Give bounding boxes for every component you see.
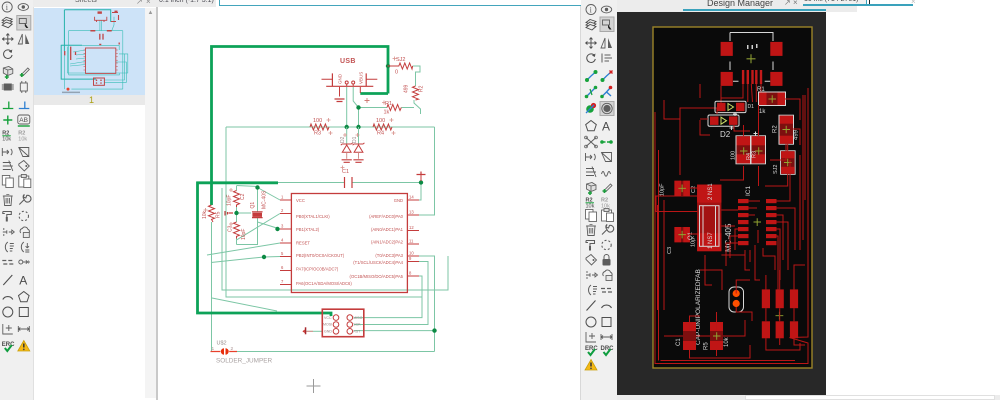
icon mirror (601, 38, 612, 48)
svg-text:1: 1 (281, 195, 284, 200)
icon route (585, 70, 598, 82)
svg-text:(AREF/ADC0)PA0: (AREF/ADC0)PA0 (369, 214, 404, 219)
icon text (602, 120, 610, 134)
svg-text:1 NS7: 1 NS7 (708, 232, 714, 249)
resistor SJ2 (388, 57, 413, 76)
label strip (34, 95, 145, 105)
icon label (18, 115, 30, 126)
ground stub symbol left of ISP (302, 327, 313, 334)
components R3 R4 (730, 112, 796, 174)
icon ratsnest (5, 242, 13, 252)
usb pads (721, 42, 733, 56)
svg-text:0: 0 (395, 70, 398, 76)
icon measure (601, 334, 612, 340)
icon pin-dot (586, 271, 598, 279)
icon pin (2, 148, 12, 156)
svg-text:USB: USB (340, 58, 356, 65)
svg-text:PA6(OC1A/SDA/MOSI/ADC6): PA6(OC1A/SDA/MOSI/ADC6) (296, 281, 352, 286)
svg-text:C3: C3 (667, 247, 673, 254)
icon split (2, 261, 13, 265)
node pin5 (262, 255, 266, 259)
capacitor C3 (vertical) (228, 222, 248, 240)
svg-text:10: 10 (409, 251, 414, 256)
wire R1 left (359, 107, 388, 109)
wire crystal group (236, 186, 238, 245)
icon wrench (19, 194, 31, 204)
board outline (653, 27, 812, 368)
svg-text:VBUS: VBUS (359, 72, 364, 84)
usb origin cross (365, 98, 370, 103)
node RST right (432, 328, 436, 332)
svg-text:100: 100 (376, 118, 385, 124)
icon move (2, 34, 13, 45)
icon dimension (3, 324, 13, 334)
svg-text:PA7(ICP/OC0B/ADC7): PA7(ICP/OC0B/ADC7) (296, 267, 339, 272)
icon meander (602, 172, 611, 177)
wire GND pin14 (419, 183, 421, 201)
icon eye (601, 6, 611, 13)
svg-text:10pF: 10pF (241, 229, 247, 240)
icon move (586, 38, 597, 49)
svg-text:5: 5 (281, 251, 284, 256)
icon rect (19, 308, 28, 317)
svg-text:IC1: IC1 (745, 186, 752, 197)
traces bottom (661, 230, 806, 361)
svg-text:13: 13 (409, 210, 414, 215)
icon cloud (20, 227, 29, 238)
icon circle (3, 307, 13, 317)
resistor R1 (384, 101, 402, 116)
svg-text:VCC: VCC (324, 316, 332, 320)
icon drc (601, 346, 615, 355)
icon line (3, 275, 12, 285)
svg-text:SJ2: SJ2 (773, 165, 779, 174)
capacitor C1 (342, 169, 352, 188)
svg-text:(AIN0/ADC1)PA1: (AIN0/ADC1)PA1 (371, 227, 404, 232)
svg-text:GND: GND (394, 198, 403, 203)
component R2 (773, 115, 800, 144)
svg-text:(AIN1/ADC2)PA2: (AIN1/ADC2)PA2 (371, 240, 404, 245)
icon name/value (2, 131, 11, 143)
svg-text:Q1: Q1 (688, 231, 694, 240)
component D1 package (715, 101, 754, 112)
svg-text:R2: R2 (419, 85, 425, 92)
wire bottom jumper net (237, 351, 435, 353)
icon pin-dot (3, 228, 15, 236)
svg-text:(OC1B/MISO/DO/ADC5)PA5: (OC1B/MISO/DO/ADC5)PA5 (350, 274, 404, 279)
wire pin8 to ISP MISO (354, 276, 422, 318)
icon info (586, 5, 596, 15)
usb origin cross (747, 54, 756, 63)
svg-text:8: 8 (409, 271, 412, 276)
agnd tick near resonator (225, 211, 233, 216)
wire pin10 down right (419, 256, 435, 352)
icon layers (586, 20, 596, 31)
svg-text:R5: R5 (216, 211, 222, 218)
crystal Q1 (250, 190, 268, 218)
svg-text:U$2: U$2 (217, 341, 227, 347)
svg-text:14: 14 (409, 195, 414, 200)
wire USB D- down jog (353, 87, 358, 127)
svg-text:SJ2: SJ2 (396, 57, 405, 63)
wire left big loop vertical (226, 127, 422, 297)
svg-text:MC-405: MC-405 (724, 223, 733, 252)
component R5 fp (704, 322, 731, 350)
schematic command box (219, 0, 581, 6)
svg-text:12: 12 (409, 225, 414, 230)
component C2 fp (660, 181, 698, 196)
svg-text:100: 100 (731, 151, 737, 160)
svg-text:CAP-UNIPOLARIZEDFAB: CAP-UNIPOLARIZEDFAB (695, 269, 702, 345)
wire R1 right + R2 bottom jog (401, 100, 420, 114)
svg-text:D2: D2 (720, 130, 731, 139)
icon rect (602, 318, 611, 327)
icon pin (586, 153, 596, 161)
resistor R2 (vertical) (404, 84, 425, 100)
sheets panel header (33, 0, 216, 7)
icon unroute (601, 71, 613, 83)
svg-text:2: 2 (281, 208, 284, 213)
svg-text:C1: C1 (342, 169, 349, 175)
scrollbar (145, 8, 156, 398)
icon miter (585, 136, 598, 148)
icon route diff (585, 86, 598, 99)
svg-text:9: 9 (409, 256, 412, 261)
svg-text:D1: D1 (352, 136, 358, 143)
svg-text:1: 1 (212, 346, 215, 352)
svg-text:C3: C3 (228, 225, 234, 232)
icon unroute2 (600, 86, 612, 99)
solder jumper pads (729, 287, 744, 312)
node VCC C1 (419, 180, 423, 184)
icon paint (3, 212, 12, 222)
icon lock (603, 255, 611, 266)
solder jumper U$2 (211, 341, 273, 365)
node D2 top (345, 125, 349, 129)
wire VCC rail to C1 (278, 182, 421, 184)
board canvas (617, 12, 826, 395)
wire diagonals to MCU pins (258, 188, 281, 201)
component C1 fp (676, 322, 696, 350)
node crystal top (255, 185, 259, 189)
svg-text:D2: D2 (340, 136, 346, 143)
icon add part (587, 183, 597, 196)
traces center (658, 160, 796, 310)
icon delete (3, 195, 13, 206)
usb small pads row (742, 70, 762, 84)
icon value (601, 198, 610, 210)
icon align (602, 54, 612, 63)
icon erc (2, 342, 15, 351)
icon layers (2, 17, 12, 28)
svg-text:10k: 10k (202, 210, 208, 219)
svg-text:2 NS1: 2 NS1 (708, 183, 714, 200)
icon delete (586, 225, 596, 236)
wire ISP RST (354, 330, 435, 332)
usb footprint silk (730, 33, 773, 82)
wire inner vertical (222, 188, 448, 290)
svg-text:PB0(XTAL1/CLKI): PB0(XTAL1/CLKI) (296, 214, 330, 219)
svg-text:C2: C2 (691, 186, 697, 193)
icon via (active) (600, 102, 614, 116)
svg-text:R3: R3 (752, 151, 758, 158)
svg-text:GND: GND (338, 73, 343, 84)
svg-text:PB2(INT0/OC0A/CKOUT): PB2(INT0/OC0A/CKOUT) (296, 253, 345, 258)
icon group-select (active) (17, 16, 31, 31)
usb connector USB (322, 58, 378, 97)
mcu IC1 ATtiny44 (280, 194, 419, 293)
icon paste (19, 175, 31, 188)
svg-text:1k: 1k (384, 110, 390, 116)
icon segment (600, 140, 613, 144)
component IC1 (738, 186, 777, 246)
svg-text:R1: R1 (757, 87, 765, 93)
region outline box (656, 196, 704, 212)
wire D net to pin13 (419, 127, 435, 215)
pin numbers (281, 195, 414, 285)
icon arc (3, 297, 13, 300)
icon pinswap (20, 81, 27, 93)
board coord text (800, 0, 866, 5)
icon copy (586, 210, 597, 222)
pin stubs right (407, 200, 419, 276)
sheet 1 thumbnail (selected, blue) (34, 8, 145, 95)
icon line (587, 301, 596, 311)
icon attribute (3, 161, 13, 172)
icon warn (585, 360, 597, 371)
wire R5 column (211, 222, 213, 352)
svg-text:R3: R3 (314, 131, 321, 137)
resistor R3 (310, 118, 329, 137)
icon polygon2 (602, 153, 612, 162)
design manager header (617, 0, 857, 12)
icon junction (3, 116, 12, 125)
wire net D-/D+ horizontal (226, 126, 435, 128)
icon paste (602, 209, 614, 222)
pin names (296, 198, 352, 286)
right toolbar (580, 0, 618, 400)
mcu side pin ticks (84, 50, 118, 70)
polygon pour outline (655, 88, 808, 364)
icon split (601, 289, 612, 293)
icon optimize (602, 240, 611, 249)
svg-text:MC-40S: MC-40S (262, 190, 268, 209)
diode D1 (zener) (352, 127, 364, 162)
icon eye (18, 4, 28, 11)
origin cross (307, 379, 321, 393)
icon copy (2, 176, 13, 188)
svg-text:R4: R4 (377, 131, 384, 137)
diode D2 (zener) (340, 127, 352, 162)
icon add recent (20, 68, 30, 77)
ISP header JP1 (322, 309, 364, 337)
svg-text:SOLDER_JUMPER: SOLDER_JUMPER (216, 358, 272, 365)
icon ripup (586, 103, 596, 113)
node pin3 (275, 227, 279, 231)
svg-text:R2: R2 (773, 125, 779, 133)
power +5V (417, 172, 426, 175)
wire ISP GND stub (306, 330, 322, 332)
svg-text:D1: D1 (748, 104, 755, 110)
svg-text:(T1/SCL/USCK/ADC4)PA4: (T1/SCL/USCK/ADC4)PA4 (353, 260, 403, 265)
icon net (3, 102, 14, 109)
ISP pads (762, 289, 798, 338)
component C3 fp (667, 227, 697, 254)
svg-text:VCC: VCC (296, 198, 305, 203)
svg-text:C2: C2 (240, 193, 246, 200)
icon reposition (21, 242, 29, 252)
icon add pencil (603, 184, 613, 193)
resistor R5 (vertical) (202, 205, 222, 222)
icon circle (586, 317, 596, 327)
divider (156, 0, 158, 400)
icon tag (586, 255, 597, 266)
top chrome (0, 0, 1000, 12)
svg-text:GND: GND (324, 330, 332, 334)
vcc symbol right (417, 172, 426, 182)
svg-text:R5: R5 (704, 342, 710, 350)
resistor R4 (373, 118, 392, 137)
icon cloud (603, 270, 612, 281)
schematic coord text (158, 0, 216, 7)
icon errors warn (18, 341, 30, 352)
icon paint (586, 241, 595, 251)
component R1 (757, 87, 786, 115)
schematic canvas (158, 0, 579, 400)
icon value dim (18, 131, 27, 143)
node D1 top (356, 125, 360, 129)
icon select (active) (600, 17, 614, 32)
svg-text:4: 4 (281, 238, 284, 243)
icon info (2, 2, 12, 12)
icon name (586, 198, 595, 210)
svg-text:6: 6 (281, 265, 284, 270)
svg-text:MISO: MISO (353, 316, 362, 320)
icon dimension (586, 332, 596, 342)
icon add part (3, 67, 13, 80)
wire SJ2 right to R2 top (413, 66, 420, 86)
icon ratsnest (589, 285, 597, 295)
icon rotate (4, 50, 13, 59)
svg-text:PB1(XTAL2): PB1(XTAL2) (296, 227, 320, 232)
svg-text:1k: 1k (759, 109, 766, 115)
icon wrench (602, 224, 614, 234)
icon erc (585, 346, 598, 355)
svg-text:(T0/ADC3)PA3: (T0/ADC3)PA3 (375, 253, 403, 258)
mid traces (664, 95, 803, 250)
icon polygon2 (19, 292, 30, 302)
pin stubs left (280, 200, 291, 285)
wire pin9 to ISP SCK (354, 262, 428, 325)
svg-text:10k: 10k (724, 336, 730, 347)
wire thick left loop (198, 182, 332, 317)
node SJ2 junction (386, 64, 390, 68)
svg-text:499: 499 (404, 84, 410, 93)
icon arc (602, 305, 612, 308)
svg-text:SCK: SCK (353, 323, 361, 327)
icon replace (2, 84, 14, 91)
component Q1 resonator (688, 183, 733, 252)
icon rotate (587, 54, 596, 63)
traces top (680, 84, 772, 130)
icon optimize (19, 211, 28, 220)
capacitor C2 (vertical) (227, 191, 247, 208)
icon measure (18, 326, 29, 332)
svg-text:499: 499 (794, 129, 800, 140)
icon attribute (586, 167, 596, 178)
icon text (19, 274, 27, 288)
part origin crosses (204, 57, 397, 227)
left toolbar (0, 0, 34, 400)
icon bus (19, 102, 30, 109)
svg-text:RST: RST (353, 330, 361, 334)
component D2 package (708, 115, 739, 139)
icon polygon (586, 121, 597, 131)
svg-text:Q1: Q1 (250, 202, 256, 209)
icon polygon (19, 148, 29, 157)
svg-text:100: 100 (313, 118, 322, 124)
svg-text:MOSI: MOSI (323, 323, 332, 327)
svg-text:2: 2 (231, 346, 234, 352)
svg-text:7: 7 (281, 279, 284, 284)
svg-text:10pF: 10pF (227, 195, 233, 206)
ground under USB (335, 99, 345, 102)
bottom scrollbar of board window (617, 395, 1000, 400)
node D- R1 junction (356, 105, 360, 109)
icon tag (19, 161, 30, 172)
node resonator mid (234, 211, 238, 215)
wire USB D+ down (346, 87, 348, 127)
sheets panel (34, 0, 156, 400)
svg-text:11: 11 (409, 239, 414, 244)
icon lock (19, 260, 30, 264)
svg-text:3: 3 (281, 224, 284, 229)
svg-text:10pF: 10pF (660, 183, 666, 196)
wire thick top loop (212, 47, 389, 206)
svg-text:RESET: RESET (296, 241, 310, 246)
mini schematic inside thumbnail (61, 10, 110, 79)
icon mirror (18, 34, 29, 44)
svg-text:C1: C1 (676, 338, 682, 346)
